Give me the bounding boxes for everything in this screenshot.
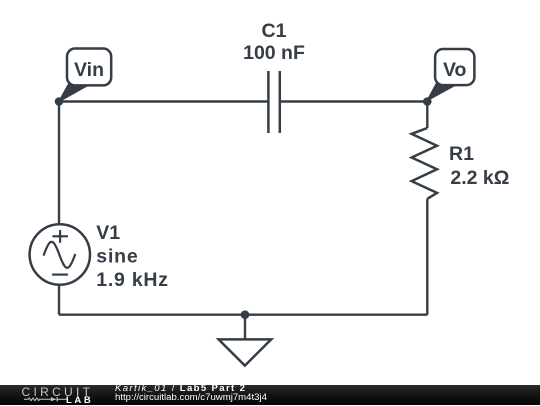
voltage source V1 plus sign — [52, 230, 68, 243]
wire top-right (C1 right plate to Vo node) — [280, 100, 427, 102]
capacitor C1 — [268, 71, 279, 133]
junction dot at Vin node — [55, 97, 64, 106]
svg-text:Vo: Vo — [443, 59, 467, 81]
junction dot at Vo node — [423, 97, 432, 106]
wire right lower vertical (R1 bottom to bottom net) — [426, 199, 428, 315]
wire top-left (Vin node to C1 left plate) — [59, 100, 268, 102]
svg-text:1.9 kHz: 1.9 kHz — [96, 269, 168, 291]
voltage source V1 circle — [30, 224, 90, 284]
voltage source V1 minus sign — [52, 274, 68, 276]
svg-text:R1: R1 — [449, 143, 474, 165]
wire right upper vertical (Vo node to R1 top) — [426, 102, 428, 129]
node Vin flag box — [67, 49, 111, 86]
node Vin flag tail — [59, 83, 88, 102]
CircuitLab logo LAB text — [66, 395, 93, 406]
svg-text:2.2 kΩ: 2.2 kΩ — [450, 167, 509, 189]
junction dot at ground node — [241, 310, 250, 319]
wire left vertical (Vin node to V1 + terminal) — [58, 102, 60, 226]
footer bar — [0, 385, 540, 405]
svg-text:Vin: Vin — [74, 59, 104, 81]
ground symbol — [219, 339, 272, 365]
svg-text:C1: C1 — [262, 20, 287, 42]
wire ground stub — [244, 315, 246, 340]
resistor R1 — [412, 128, 437, 199]
svg-text:V1: V1 — [96, 222, 120, 244]
wire left lower vertical (V1 - terminal to bottom net) — [58, 284, 60, 314]
CircuitLab logo schematic glyph (wire, resistor, diode) — [24, 397, 68, 403]
svg-text:100 nF: 100 nF — [243, 42, 305, 64]
svg-text:sine: sine — [96, 245, 138, 267]
credit text — [115, 384, 267, 403]
wire bottom net — [59, 314, 427, 316]
CircuitLab logo CIRCUIT text — [22, 385, 94, 399]
voltage source V1 sine wave — [44, 242, 75, 268]
node Vo flag box — [435, 49, 474, 85]
node Vo flag tail — [427, 83, 455, 101]
